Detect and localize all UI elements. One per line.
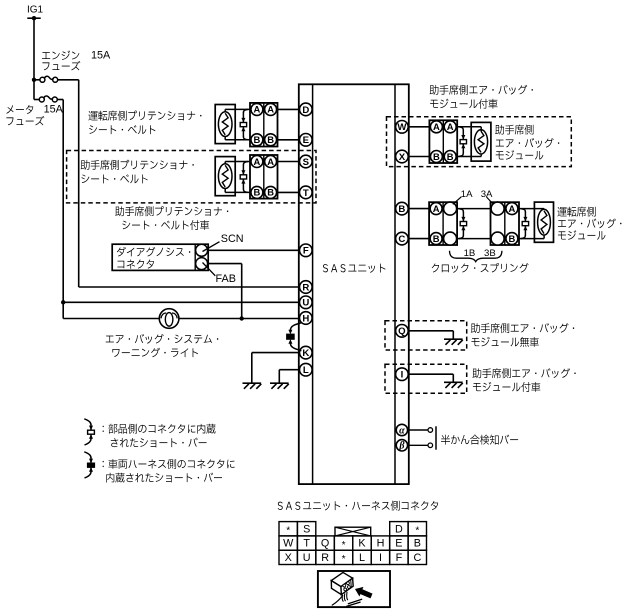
svg-text:C: C xyxy=(413,552,421,564)
svg-text:E: E xyxy=(303,135,310,146)
svg-text:H: H xyxy=(377,538,385,550)
ground I xyxy=(444,382,463,388)
label passenger airbag module equipped (top) xyxy=(430,85,533,109)
clock spring connector 2 (3A/3B to A/B) xyxy=(491,202,520,245)
wire terminal beta to detection bar xyxy=(408,444,429,446)
short bar component side (driver module) xyxy=(521,209,529,239)
terminal L xyxy=(300,363,313,376)
dashed option box passenger pretensioner xyxy=(67,151,316,203)
terminal F xyxy=(300,244,313,257)
wire terminal I to ground xyxy=(409,374,454,382)
svg-text:F: F xyxy=(396,552,403,564)
wire terminal alpha to detection bar xyxy=(408,429,429,431)
terminal W xyxy=(396,121,409,134)
connector insertion icon xyxy=(318,571,390,607)
svg-text:H: H xyxy=(302,313,309,324)
svg-text:T: T xyxy=(303,188,309,199)
node IG1 xyxy=(27,4,44,20)
svg-text:15A: 15A xyxy=(91,49,111,61)
wire terminal K to ground xyxy=(252,353,300,384)
label 1A with pointer xyxy=(453,189,473,205)
wire meter fuse to terminal U and lamp xyxy=(57,100,63,319)
wire terminal Q to ground xyxy=(409,331,454,339)
svg-text:Q: Q xyxy=(321,538,329,550)
svg-text:FAB: FAB xyxy=(216,273,236,285)
warning lamp xyxy=(159,309,179,329)
SAS harness connector pin grid xyxy=(279,522,427,566)
label driver pretensioner seat belt xyxy=(88,111,201,135)
svg-text:X: X xyxy=(285,552,292,564)
short bar component side (driver pretensioner) xyxy=(240,109,248,139)
wire SCN to terminal F xyxy=(208,249,300,251)
wire warning lamp to terminal H xyxy=(179,318,300,320)
svg-text:A: A xyxy=(254,104,261,115)
svg-text:B: B xyxy=(398,204,405,215)
svg-text:U: U xyxy=(302,298,309,309)
wire connector to terminal S xyxy=(277,161,300,163)
wire to meter fuse xyxy=(34,80,39,100)
svg-text:A: A xyxy=(509,203,516,214)
contact circle beta xyxy=(428,443,433,448)
dashed option box terminal Q (module not equipped) xyxy=(385,321,467,350)
legend short bar component side symbol xyxy=(84,419,94,445)
wire connector to terminal T xyxy=(277,191,300,193)
label passenger airbag module equipped xyxy=(472,368,575,392)
svg-text:3A: 3A xyxy=(481,189,493,200)
short bar component side (passenger pretensioner) xyxy=(240,162,248,193)
wire connector to terminal E xyxy=(277,139,300,141)
legend short bar harness side symbol xyxy=(84,452,94,478)
label engine fuse xyxy=(42,50,80,70)
wire terminal L to ground xyxy=(279,370,299,384)
svg-text:B: B xyxy=(433,151,440,162)
wire IG1 down to fuses xyxy=(33,18,35,80)
svg-text:*: * xyxy=(342,554,346,565)
terminal D xyxy=(300,103,313,116)
label half engagement detection bar xyxy=(441,435,518,445)
wire clock spring 1A to 3A xyxy=(457,208,490,210)
terminal H xyxy=(300,312,313,325)
svg-text:3B: 3B xyxy=(484,248,496,259)
wire terminal W to connector xyxy=(409,126,430,128)
svg-text:B: B xyxy=(414,538,421,550)
svg-text:A: A xyxy=(433,203,440,214)
ground L xyxy=(270,383,289,389)
fuse engine (F1) xyxy=(34,76,58,82)
SAS unit box xyxy=(299,84,409,484)
svg-text:B: B xyxy=(254,134,261,145)
terminal R xyxy=(300,281,313,294)
label meter fuse xyxy=(6,105,44,125)
detection bar xyxy=(435,426,437,449)
svg-text:F: F xyxy=(303,246,309,257)
svg-text:A: A xyxy=(254,156,261,167)
terminal E xyxy=(300,134,313,147)
squib passenger airbag module xyxy=(471,122,491,161)
wire FAB to H wire junction xyxy=(208,264,242,319)
wire squib to connector (driver pretensioner) xyxy=(225,109,251,139)
terminal T xyxy=(300,186,313,199)
svg-text:T: T xyxy=(303,538,310,550)
wire to terminal U xyxy=(63,301,299,303)
terminal Q xyxy=(396,325,409,338)
wire engine fuse to terminal R xyxy=(58,80,300,287)
svg-text:B: B xyxy=(433,233,440,244)
legend text harness side short bar xyxy=(103,459,235,483)
svg-text:Q: Q xyxy=(398,326,406,337)
wire clock spring to driver squib xyxy=(519,209,544,239)
wire terminal B to clock spring xyxy=(409,208,430,210)
short bar component side (passenger module) xyxy=(459,127,467,157)
svg-text:α: α xyxy=(399,425,405,436)
label driver airbag module xyxy=(557,207,621,240)
pin FAB xyxy=(196,258,236,285)
junction dot on U feed xyxy=(61,300,65,304)
svg-text:IG1: IG1 xyxy=(27,4,44,15)
connector driver pretensioner A/B xyxy=(250,103,278,147)
wire to warning lamp xyxy=(63,318,159,320)
svg-text:D: D xyxy=(302,105,309,116)
svg-text:A: A xyxy=(447,121,454,132)
svg-text:A: A xyxy=(267,104,274,115)
wire clock spring 1B to 3B xyxy=(457,238,490,240)
short bar clock spring side xyxy=(459,209,467,239)
svg-text:B: B xyxy=(267,134,274,145)
terminal S xyxy=(300,155,313,168)
label SAS unit harness side connector xyxy=(278,501,439,511)
svg-text:B: B xyxy=(254,187,261,198)
junction dot FAB on H wire xyxy=(240,316,244,320)
svg-text:1B: 1B xyxy=(464,248,476,259)
clock spring connector 1 (A/B to 1A/1B) xyxy=(429,202,457,245)
svg-text:X: X xyxy=(399,152,406,163)
label 3A with pointer xyxy=(481,189,495,206)
svg-text:15A: 15A xyxy=(44,103,64,115)
wire connector to terminal D xyxy=(277,108,300,110)
label passenger pretensioner seat belt xyxy=(81,160,194,184)
short bar harness side between H and K xyxy=(287,323,302,351)
squib driver airbag module xyxy=(534,202,553,242)
connector passenger airbag module A/B xyxy=(429,120,457,163)
squib passenger pretensioner xyxy=(215,157,235,196)
svg-text:B: B xyxy=(267,187,274,198)
wire terminal X to connector xyxy=(409,156,430,158)
svg-text:C: C xyxy=(398,234,405,245)
squib driver pretensioner xyxy=(215,105,235,144)
svg-text:A: A xyxy=(433,121,440,132)
svg-text:K: K xyxy=(302,348,309,359)
ground Q xyxy=(444,339,463,345)
svg-text:I: I xyxy=(379,552,382,564)
terminal I xyxy=(396,368,409,381)
dashed option box passenger airbag module xyxy=(387,117,572,167)
label SAS unit xyxy=(323,264,386,273)
svg-text:A: A xyxy=(267,156,274,167)
junction dot at engine fuse xyxy=(32,78,36,82)
label 15A engine fuse xyxy=(91,49,111,61)
wire squib to connector (passenger pretensioner) xyxy=(225,162,251,193)
diagnosis connector xyxy=(112,244,208,270)
pin SCN xyxy=(196,233,244,256)
label clock spring xyxy=(432,263,529,273)
wire connector to squib (passenger module) xyxy=(456,127,481,157)
svg-text:SCN: SCN xyxy=(221,233,244,245)
svg-text:W: W xyxy=(283,538,294,550)
label passenger pretensioner equipped xyxy=(115,206,228,230)
fuse meter (F2) xyxy=(39,96,57,102)
contact circle alpha xyxy=(428,428,433,433)
terminal X xyxy=(396,150,409,163)
svg-text:1A: 1A xyxy=(461,189,473,200)
connector passenger pretensioner A/B xyxy=(250,155,278,199)
ground K xyxy=(243,383,262,389)
terminal U xyxy=(300,296,313,309)
svg-text:U: U xyxy=(303,552,311,564)
svg-text:W: W xyxy=(397,122,407,133)
svg-text:*: * xyxy=(415,526,419,537)
terminal B xyxy=(396,202,409,215)
svg-text:β: β xyxy=(398,441,405,452)
terminal K xyxy=(300,346,313,359)
svg-text:B: B xyxy=(447,151,454,162)
svg-text:K: K xyxy=(358,538,366,550)
legend text component side short bar xyxy=(103,424,216,448)
svg-text:R: R xyxy=(302,282,309,293)
label passenger airbag module not equipped xyxy=(471,323,574,347)
svg-text:D: D xyxy=(395,523,403,535)
wire terminal C to clock spring xyxy=(409,238,430,240)
label 1B 3B with brace xyxy=(450,248,502,262)
svg-text:B: B xyxy=(509,233,516,244)
svg-text:I: I xyxy=(401,370,404,381)
svg-text:S: S xyxy=(303,523,310,535)
terminal beta xyxy=(396,440,407,452)
svg-text:*: * xyxy=(342,540,346,551)
label passenger airbag module xyxy=(495,125,559,160)
terminal C xyxy=(396,232,409,245)
label 15A meter fuse xyxy=(44,103,64,115)
svg-text:L: L xyxy=(359,552,365,564)
svg-text:S: S xyxy=(303,157,310,168)
svg-text:E: E xyxy=(395,538,402,550)
svg-text:L: L xyxy=(303,365,309,376)
dashed option box terminal I (module equipped) xyxy=(385,364,467,393)
label air bag system warning light xyxy=(106,334,219,357)
svg-text:*: * xyxy=(286,526,290,537)
svg-text:R: R xyxy=(321,552,329,564)
terminal alpha xyxy=(396,424,407,436)
